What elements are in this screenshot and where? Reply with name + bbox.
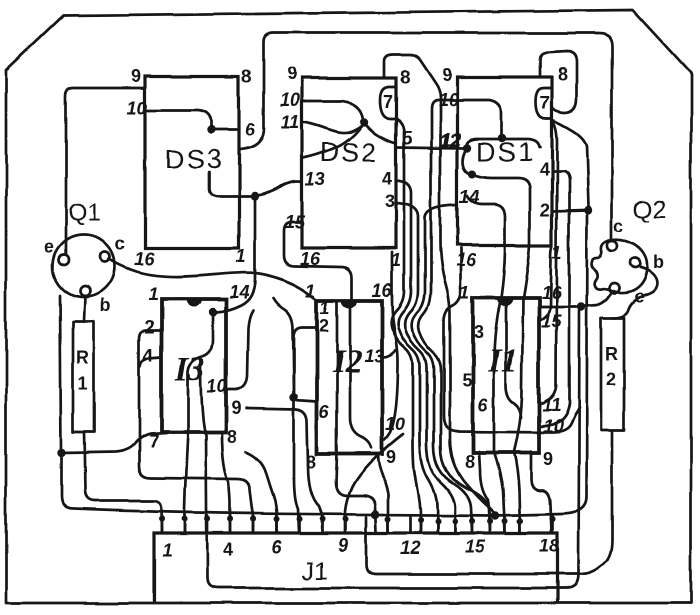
wire DS1 pin12 node across to right edge (467, 139, 540, 148)
svg-text:8: 8 (465, 452, 475, 472)
svg-text:11: 11 (281, 112, 300, 132)
svg-text:2: 2 (606, 369, 616, 389)
svg-text:e: e (44, 237, 54, 257)
svg-text:1: 1 (236, 246, 246, 266)
node I1 pin16 riser (577, 303, 585, 311)
wire R2 bottom long way into J1 (366, 430, 612, 574)
wire junction down into I3 top-right node (217, 196, 255, 312)
wire I2 interior notch S (350, 304, 371, 448)
wire I1 pin8 to J1 (479, 452, 490, 515)
wire R1 bottom to J1 pin1 (84, 432, 162, 532)
wire I3 interior mid vertical to J1 (185, 430, 189, 532)
svg-text:10: 10 (280, 90, 300, 110)
svg-text:R: R (76, 348, 89, 368)
svg-text:c: c (614, 216, 624, 236)
svg-text:J1: J1 (302, 557, 328, 585)
node DS1 pin2 junction (584, 206, 592, 214)
wire I2 pin9 to J1 (378, 454, 388, 532)
wire Q1 c to I2 pin1 (109, 259, 316, 299)
wire DS1 bottom pins to I1 top b (523, 245, 530, 298)
wire junction to DS2 pin13 (255, 182, 302, 197)
wire DS2 pin11 internal (302, 122, 362, 133)
Q2 pin b (630, 258, 640, 268)
resistor R1 (73, 322, 94, 432)
I1 pin-1 notch (497, 298, 513, 306)
svg-text:DS2: DS2 (320, 137, 379, 167)
wire I2 through vertical to bus dot (336, 300, 376, 532)
svg-text:2: 2 (144, 317, 154, 337)
svg-text:4: 4 (143, 345, 153, 365)
svg-text:9: 9 (231, 398, 241, 418)
svg-text:Q2: Q2 (633, 196, 666, 224)
svg-text:16: 16 (134, 249, 155, 269)
node bus-J1-b (491, 511, 499, 519)
wire I3 pin8 to J1 (222, 433, 231, 532)
transistor Q1 (44, 199, 125, 316)
node DS1 internal b (468, 170, 476, 178)
wire DS1 pin2 stub (552, 210, 585, 211)
svg-text:9: 9 (338, 535, 348, 555)
svg-text:Q1: Q1 (68, 199, 101, 227)
svg-text:DS1: DS1 (476, 137, 535, 167)
svg-text:2: 2 (319, 316, 329, 336)
wire I2 pin2 loop to node and pin6 (294, 328, 317, 394)
wire I3 pin4 stub (140, 357, 161, 366)
wire DS2 7-box down to mid bundle A (391, 119, 420, 532)
wire I3 pin2 left down to J1 (139, 330, 254, 532)
display DS2 (280, 64, 459, 270)
wire I3 pin9 to J1 (246, 408, 322, 532)
wire I1 pin15 up to DS1 pin1 (539, 247, 552, 321)
svg-text:9: 9 (131, 66, 141, 86)
wire top rail: DS3 right to Q2 c (240, 33, 612, 240)
wire DS1 7-box diagonal to pin2 dot (552, 120, 588, 206)
svg-text:b: b (100, 296, 111, 316)
wire DS1 8-loop (540, 51, 577, 113)
node DS3 internal (207, 126, 215, 134)
wire mid bundle C from DS2 pin3 (396, 203, 455, 532)
wire DS1 pin10 internal drop (457, 100, 502, 134)
wire I3 interior vertical to J1 via inside J1 (201, 311, 579, 588)
wire Q2 b squiggle to R2 top (613, 267, 657, 318)
wire I2 node down to J1 (294, 397, 299, 532)
node DS2 internal (360, 118, 368, 126)
wire DS1 pin4 down to I1 pin10 (539, 172, 569, 427)
transistor Q2 (592, 196, 667, 307)
wire bus: left dot down, across above J1, up to DS1 pin2 dot (62, 213, 588, 516)
wire DS1 bottom pins to I1 top a (501, 245, 505, 298)
wire DS2 node to pin5 (364, 122, 396, 143)
svg-text:16: 16 (372, 280, 393, 300)
wire DS1 pin12 node lower bump to 14 area (463, 148, 472, 174)
svg-text:10: 10 (207, 377, 227, 397)
wire DS2 node across text to left edge (303, 122, 364, 158)
svg-text:4: 4 (539, 160, 549, 180)
wire mid bundle D from DS1 pin14 (412, 205, 472, 532)
svg-text:1: 1 (78, 374, 88, 394)
Q1 pin c (100, 252, 110, 262)
svg-text:2: 2 (540, 200, 550, 220)
Q2 pin e (609, 283, 619, 293)
svg-text:1: 1 (162, 540, 172, 560)
IC I3 (143, 282, 249, 452)
wire Q1 e through to left bus dot (60, 295, 61, 452)
node bus-left (57, 449, 65, 457)
svg-text:R: R (605, 344, 618, 364)
wire DS1 pin16 down right angle to riser (444, 248, 579, 433)
svg-text:6: 6 (245, 120, 256, 140)
wire DS3 pin9 to Q1 e (66, 88, 145, 255)
IC I2 (306, 280, 405, 472)
svg-text:12: 12 (400, 538, 420, 558)
wire I3 pin10 loop up (226, 310, 253, 390)
svg-text:4: 4 (382, 168, 392, 188)
resistor R2 (601, 318, 624, 430)
node below DS3 (251, 192, 259, 200)
svg-text:9: 9 (287, 64, 297, 84)
J1 pin ticks (162, 516, 553, 532)
svg-text:8: 8 (242, 66, 252, 86)
svg-text:9: 9 (442, 65, 452, 85)
svg-text:6: 6 (319, 402, 330, 422)
wire DS1 internal to bottom edge a (472, 174, 530, 243)
connector J1 (154, 533, 559, 603)
wire mid bundle E from DS1 pin10 (419, 100, 490, 532)
I2 pin-1 notch (341, 300, 357, 308)
wire Q1 b to R1 (84, 296, 85, 322)
svg-text:5: 5 (462, 370, 472, 390)
svg-text:14: 14 (229, 282, 249, 302)
wire DS2 8-loop (384, 55, 494, 513)
wire I2 pin13 stub (382, 350, 396, 357)
wire I1 pin16 to Q2 e (539, 294, 610, 307)
wire DS2 7-box (380, 87, 396, 119)
svg-text:8: 8 (227, 427, 237, 447)
svg-text:15: 15 (465, 537, 486, 557)
node I2 left (290, 393, 298, 401)
svg-text:1: 1 (320, 298, 330, 318)
node DS1 internal (498, 134, 506, 142)
svg-text:6: 6 (271, 537, 282, 557)
svg-text:1: 1 (148, 284, 158, 304)
svg-text:4: 4 (223, 539, 233, 559)
svg-text:b: b (653, 252, 664, 272)
node I3 top-right (209, 308, 217, 316)
svg-text:DS3: DS3 (165, 144, 224, 174)
svg-text:7: 7 (540, 93, 550, 113)
wire I1 pin11 up to DS1 bottom (539, 121, 557, 405)
display DS1 (438, 64, 568, 270)
svg-text:c: c (115, 234, 125, 254)
svg-text:18: 18 (539, 536, 559, 556)
wire left dot to I3 pin7 (62, 433, 167, 453)
svg-text:8: 8 (558, 64, 568, 84)
wire DS3 pin10 to pin6 internal (145, 110, 239, 130)
wire DS1 7-box (536, 88, 552, 119)
svg-text:13: 13 (305, 169, 325, 189)
svg-text:9: 9 (386, 447, 396, 467)
svg-text:10: 10 (127, 98, 147, 118)
wire I1 internal a to J1 (494, 298, 505, 532)
svg-text:3: 3 (385, 191, 395, 211)
svg-text:15: 15 (541, 312, 562, 332)
svg-text:7: 7 (383, 92, 393, 112)
wire DS3 internal down to junction below DS3 (209, 172, 252, 196)
Q1 pin b (80, 286, 90, 296)
wire DS2 pin10 internal to node (302, 101, 363, 119)
wire I1 internal b to J1 (514, 298, 523, 532)
wire diagonal branch to J1 (345, 434, 403, 532)
wire DS2 pin15 to I2 top (284, 222, 352, 298)
node bus-J1-a (371, 510, 379, 518)
wire I2 node to pin6 (294, 397, 317, 401)
wire S-feeder to J1 tick6 (246, 452, 277, 532)
wire mid bundle B from DS2 pin4 (396, 180, 438, 532)
I3 pin-1 notch (185, 299, 201, 307)
node DS1 pin12 (463, 144, 471, 152)
wire I1 pin9 to J1 pin18 (531, 452, 551, 532)
wire I1 interior notch S (506, 302, 521, 418)
svg-text:I1: I1 (487, 342, 518, 379)
wire DS2 pin5 to DS1 pin12 (396, 147, 464, 148)
IC I1 (460, 283, 563, 472)
svg-text:9: 9 (543, 449, 553, 469)
J1 tick dots (159, 516, 556, 524)
Q2 pin c (608, 241, 618, 251)
wire I3 node internal down (188, 312, 213, 430)
svg-text:13: 13 (364, 346, 384, 366)
svg-text:8: 8 (400, 67, 410, 87)
wire DS2 pin1 down to I2 pin10 (382, 252, 398, 441)
svg-text:3: 3 (474, 322, 484, 342)
display DS3 (127, 66, 256, 269)
Q1 pin e (59, 255, 69, 265)
svg-text:6: 6 (478, 395, 489, 415)
svg-text:16: 16 (456, 250, 477, 270)
wire I2 node up (273, 298, 294, 394)
wire DS1 internal to bottom edge b (467, 196, 505, 243)
